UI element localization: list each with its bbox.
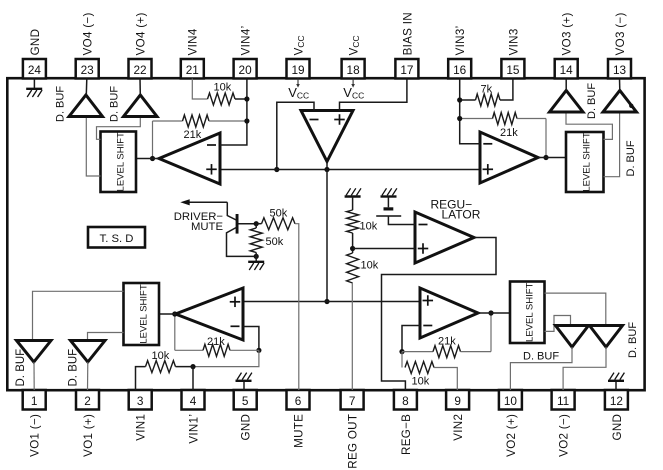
bias amp + symbol (334, 114, 345, 125)
label D.BUF (ch2 horizontal) (523, 351, 559, 363)
svg-text:4: 4 (190, 394, 197, 408)
wire divider junction to regulator + input (353, 248, 415, 250)
svg-text:8: 8 (402, 394, 409, 408)
svg-text:REG OUT: REG OUT (347, 414, 360, 469)
svg-text:T. S. D: T. S. D (100, 233, 134, 245)
pin 2 (VO1 (+)) bottom box+label (76, 390, 99, 457)
junction bias rail upper (324, 167, 329, 172)
svg-text:10k: 10k (214, 82, 232, 94)
wire level shift ch3 to buffer pin14 (566, 112, 612, 139)
wire bias rail vertical (326, 170, 328, 302)
wire ch1 output to level shift (159, 313, 176, 315)
label D.BUF (pin14) (586, 83, 598, 119)
resistor 10k (divider upper) (347, 210, 359, 233)
svg-text:7k: 7k (481, 84, 493, 96)
resistor 21k (ch1 feedback) (175, 344, 259, 356)
label D.BUF (pin1) (15, 349, 27, 387)
ch4 - symbol (207, 144, 216, 146)
label DRIVER-MUTE (174, 211, 224, 233)
pin label Vcc (rotated) (348, 35, 362, 55)
label D.BUF (pin13) (625, 140, 637, 176)
transistor Q1 (mute) bar (236, 214, 239, 234)
wire bias amp output stub (326, 162, 328, 170)
svg-text:12: 12 (610, 394, 623, 408)
svg-text:VIN2: VIN2 (452, 414, 465, 441)
ch3 + symbol (483, 164, 494, 175)
wire buffer to pin 1 (33, 362, 35, 390)
op-amp U5 (bias buffer) (301, 111, 353, 162)
pin 16 (VIN3') top box+label (448, 26, 471, 79)
svg-text:50k: 50k (270, 208, 288, 220)
pin 5 (GND) bottom box+label (234, 390, 257, 440)
resistor 7k (ch3 input) (460, 79, 513, 107)
svg-text:D. BUF: D. BUF (586, 83, 598, 119)
junction divider / regulator + (350, 246, 355, 251)
level shift ch1 (124, 283, 160, 345)
D.BUF buffer pin13 (603, 91, 637, 113)
level shift ch3 (566, 132, 604, 192)
wire buffer A to pin 10 (510, 347, 572, 390)
wire pin20 column to ch4 - input (220, 79, 247, 146)
wire buffer to pin 23 (85, 79, 88, 96)
svg-text:VO4 (+): VO4 (+) (134, 12, 147, 55)
pin 23 (VO4 (-)) top box+label (76, 12, 99, 78)
label 10k divider upper (360, 221, 378, 233)
svg-text:VO2 (+): VO2 (+) (505, 414, 518, 457)
svg-text:LEVEL SHIFT: LEVEL SHIFT (582, 132, 593, 192)
resistor 21k (ch3 feedback) (460, 113, 546, 125)
svg-text:MUTE: MUTE (292, 414, 305, 448)
pin 21 (VIN4) top box+label (181, 28, 204, 78)
wire capacitor to regulator - input (388, 216, 415, 225)
wire buffer to pin 13 (619, 79, 621, 91)
svg-text:VIN4’: VIN4’ (240, 26, 253, 56)
wire buffer to pin 2 (87, 362, 89, 390)
pin 19 (Vcc) top box+label (287, 59, 310, 79)
svg-text:MUTE: MUTE (191, 221, 223, 233)
svg-text:23: 23 (81, 63, 95, 77)
ground at pin 5 (236, 373, 252, 390)
wire ch3 feedback to output (545, 119, 547, 158)
resistor 10k (ch2 input) (402, 352, 457, 390)
junction ch3 7k / pin16 (457, 97, 462, 102)
svg-text:21k: 21k (207, 336, 225, 348)
wire ch2 output to level shift (478, 312, 510, 314)
junction bias rail lower (324, 299, 329, 304)
D.BUF buffer pin22 (124, 95, 158, 117)
svg-text:D. BUF: D. BUF (55, 86, 67, 122)
svg-text:15: 15 (506, 63, 520, 77)
svg-text:17: 17 (400, 63, 413, 77)
pin 24 (GND) top box+label (23, 29, 46, 79)
label 21k ch3 (500, 127, 518, 139)
svg-text:LEVEL SHIFT: LEVEL SHIFT (525, 282, 536, 342)
svg-text:VO4 (−): VO4 (−) (82, 12, 95, 55)
resistor 21k (ch2 feedback) (402, 346, 491, 358)
wire ch4 output to level shift (136, 158, 159, 160)
junction ch1 - node (256, 348, 261, 353)
pin 7 (REG OUT) bottom box+label (341, 390, 364, 469)
svg-text:LEVEL SHIFT: LEVEL SHIFT (116, 132, 127, 192)
junction Q1 emitter / ground (254, 254, 259, 259)
wire level shift ch2 to buffer A (545, 316, 571, 332)
Vcc supply arrow+label (288, 79, 309, 101)
svg-text:21k: 21k (184, 129, 202, 141)
ground at pin 24 (26, 79, 42, 98)
ground at pin 12 (608, 373, 624, 390)
label 21k ch1 (207, 336, 225, 348)
svg-text:10: 10 (504, 394, 518, 408)
label 21k ch2 (438, 336, 456, 348)
svg-text:LATOR: LATOR (442, 208, 481, 222)
wire level shift ch3 to buffer pin13 (604, 112, 620, 177)
D.BUF buffer pin2 (71, 341, 106, 363)
pin 22 (VO4 (+)) top box+label (129, 12, 152, 78)
op-amp ch1 (176, 288, 244, 340)
svg-text:D. BUF: D. BUF (627, 322, 639, 358)
svg-text:10k: 10k (412, 376, 430, 388)
svg-text:VIN1’: VIN1’ (187, 414, 200, 444)
transistor Q1 base wire (239, 223, 257, 225)
op-amp ch3 (480, 132, 538, 183)
junction ch1 10k / pin4 (190, 364, 195, 369)
svg-text:VIN3’: VIN3’ (454, 26, 467, 56)
wire ground to capacitor (387, 197, 389, 208)
svg-text:LEVEL SHIFT: LEVEL SHIFT (139, 284, 150, 344)
svg-text:GND: GND (611, 414, 624, 441)
pin 18 (Vcc) top box+label (342, 59, 365, 79)
label 50k vertical (266, 236, 284, 248)
svg-text:VO1 (−): VO1 (−) (29, 414, 42, 457)
wire 50k ground stub (255, 256, 257, 261)
svg-text:7: 7 (349, 394, 356, 408)
junction ch4 output (150, 156, 155, 161)
wire buffer to pin 22 (139, 79, 141, 96)
svg-text:VO2 (−): VO2 (−) (558, 414, 571, 457)
svg-text:VIN4: VIN4 (187, 28, 200, 55)
wire ch3 output to level shift (538, 157, 566, 159)
label 10k ch4 (214, 82, 232, 94)
pin label Vcc (rotated) (292, 35, 306, 55)
label D.BUF (pin23) (55, 86, 67, 122)
svg-text:3: 3 (137, 394, 144, 408)
capacitor C1 (regulator filter) (376, 207, 401, 216)
svg-text:14: 14 (560, 63, 574, 77)
ch3 - symbol (483, 143, 492, 145)
pin 12 (GND) bottom box+label (605, 390, 628, 440)
pin 1 (VO1 (-)) bottom box+label (23, 390, 46, 457)
IC body outline (7, 78, 644, 390)
wire level shift ch4 to buffer pin23 (86, 117, 100, 177)
label 21k ch4 (184, 129, 202, 141)
wire level shift ch2 to buffer B (545, 293, 606, 325)
bias amp - symbol (310, 119, 319, 121)
wire ch1 feedback to output (174, 314, 176, 350)
svg-text:D. BUF: D. BUF (15, 349, 27, 387)
Vcc supply arrow+label (343, 79, 364, 101)
wire mute column to pin 6 (295, 224, 299, 390)
junction ch1 output (172, 311, 177, 316)
ch1 - symbol (231, 325, 240, 327)
svg-text:21: 21 (186, 63, 199, 77)
wire mute collector line with arrow to drivers (180, 199, 236, 220)
label 10k ch1 (152, 350, 170, 362)
pin 15 (VIN3) top box+label (501, 28, 524, 78)
svg-text:9: 9 (454, 394, 461, 408)
ch4 + symbol (206, 164, 217, 175)
svg-text:22: 22 (133, 63, 146, 77)
svg-text:5: 5 (242, 394, 249, 408)
label D.BUF (pin22) (109, 86, 121, 122)
svg-text:VIN1: VIN1 (135, 414, 148, 441)
svg-text:20: 20 (239, 63, 253, 77)
D.BUF buffer B (pin11) (590, 326, 623, 348)
D.BUF buffer pin1 (17, 341, 52, 363)
pin 10 (VO2 (+)) bottom box+label (499, 390, 522, 457)
resistor 10k (ch4 input) (208, 93, 247, 105)
junction ch3 output (543, 155, 548, 160)
svg-text:D. BUF: D. BUF (68, 349, 80, 387)
svg-text:VO3 (−): VO3 (−) (614, 12, 627, 55)
wire bias amp - input feedback to rail (277, 102, 314, 169)
wire bias rail lower (to + inputs of ch1/ch2) (243, 301, 420, 303)
wire level shift ch1 to buffer pin1 (33, 291, 124, 340)
ground above capacitor (381, 188, 397, 196)
pin 8 (REG-B) bottom box+label (394, 390, 417, 455)
svg-text:21k: 21k (500, 127, 518, 139)
ch1 + symbol (230, 297, 241, 308)
D.BUF buffer pin23 (69, 95, 103, 117)
ch2 - symbol (423, 325, 432, 327)
svg-text:13: 13 (613, 63, 627, 77)
svg-text:VIN3: VIN3 (507, 28, 520, 55)
junction ch4 21k / - node (244, 118, 249, 123)
pin 17 (BIAS IN) top box+label (395, 12, 418, 78)
svg-text:VO1 (+): VO1 (+) (82, 414, 95, 457)
wire divider mid (352, 233, 354, 253)
resistor 21k (ch4 feedback) (153, 115, 247, 127)
svg-text:BIAS IN: BIAS IN (401, 12, 414, 55)
wire bias rail upper (to + inputs of ch4/ch3) (220, 169, 480, 171)
wire ch2 feedback to output (490, 313, 492, 352)
pin 11 (VO2 (-)) bottom box+label (552, 390, 575, 457)
svg-text:1: 1 (31, 394, 38, 408)
label 10k divider lower (361, 260, 379, 272)
resistor 50k (horizontal) (256, 218, 295, 230)
svg-text:GND: GND (29, 29, 42, 56)
wire pin21 riser (192, 79, 207, 100)
pin 14 (VO3 (+)) top box+label (555, 12, 578, 78)
pin 3 (VIN1) bottom box+label (129, 390, 152, 441)
wire pin16 column to ch3 - input (460, 79, 480, 144)
wire pin4 riser (192, 367, 194, 390)
wire ch4 feedback to output (152, 121, 154, 159)
junction dot on buffer 13 edge (629, 104, 633, 108)
op-amp ch2 (420, 288, 478, 338)
pin 6 (MUTE) bottom box+label (287, 390, 310, 448)
svg-text:10k: 10k (361, 260, 379, 272)
label 10k ch2 (412, 376, 430, 388)
ground below 50k (248, 262, 264, 270)
D.BUF buffer A (pin10) (556, 326, 589, 348)
svg-text:10k: 10k (152, 350, 170, 362)
svg-text:11: 11 (557, 394, 569, 408)
junction ch3 21k / - node (457, 116, 462, 121)
ground above divider (345, 188, 361, 196)
junction ch2 - node (399, 349, 404, 354)
D.BUF buffer pin14 (550, 91, 584, 113)
svg-text:D. BUF: D. BUF (625, 140, 637, 176)
resistor 10k (divider lower) (347, 253, 359, 283)
regulator - symbol (419, 224, 428, 226)
ch2 + symbol (423, 295, 434, 306)
junction ch4 10k / pin20 (244, 96, 249, 101)
regulator + symbol (418, 243, 429, 254)
svg-text:21k: 21k (438, 336, 456, 348)
svg-text:D. BUF: D. BUF (109, 86, 121, 122)
wire ch1 - input to node (243, 327, 259, 351)
wire ch2 - input to node (402, 326, 420, 352)
label 50k horizontal (270, 208, 288, 220)
junction bias feedback / rail (274, 167, 279, 172)
pin 20 (VIN4') top box+label (234, 26, 257, 79)
svg-text:10k: 10k (360, 221, 378, 233)
resistor 50k (vertical) (250, 224, 262, 257)
wire level shift ch4 to buffer pin22 (97, 117, 141, 140)
op-amp ch4 (159, 133, 220, 184)
svg-text:D. BUF: D. BUF (523, 351, 559, 363)
label D.BUF (pin2) (68, 349, 80, 387)
op-amp U6 (regulator) (415, 212, 474, 263)
wire divider to pin 7 REG OUT (351, 283, 353, 390)
wire buffer B to pin 11 (563, 347, 606, 390)
transistor Q1 emitter wire (227, 228, 257, 257)
level shift ch2 (510, 282, 545, 344)
wire regulator feedback to pin 8 REG-B (382, 238, 497, 391)
pin 9 (VIN2) bottom box+label (446, 390, 469, 441)
svg-text:24: 24 (28, 63, 42, 77)
svg-text:2: 2 (84, 394, 91, 408)
junction ch2 output (488, 310, 493, 315)
svg-text:VO3 (+): VO3 (+) (561, 12, 574, 55)
wire buffer to pin 14 (565, 79, 567, 91)
pin 4 (VIN1') bottom box+label (182, 390, 205, 444)
svg-text:16: 16 (453, 63, 467, 77)
svg-text:19: 19 (291, 63, 304, 77)
T.S.D block (88, 227, 145, 248)
svg-text:50k: 50k (266, 236, 284, 248)
svg-text:6: 6 (295, 394, 302, 408)
wire bias amp + input to pin 17 BIAS IN (340, 79, 407, 111)
svg-text:18: 18 (347, 63, 361, 77)
svg-text:REG−B: REG−B (400, 414, 413, 455)
label REGULATOR (431, 198, 481, 222)
label D.BUF (ch2 vertical) (627, 322, 639, 358)
label 7k ch3 (481, 84, 493, 96)
wire level shift ch1 to buffer pin2 (88, 333, 124, 341)
resistor 10k (ch1 input) (136, 361, 194, 390)
svg-text:GND: GND (240, 414, 253, 441)
wire ch1 - node to input network (193, 350, 259, 366)
wire ground to 10k (352, 197, 354, 211)
junction Q1 base / 50k (254, 221, 259, 226)
level shift ch4 (101, 132, 137, 193)
pin 13 (VO3 (-)) top box+label (608, 12, 631, 78)
